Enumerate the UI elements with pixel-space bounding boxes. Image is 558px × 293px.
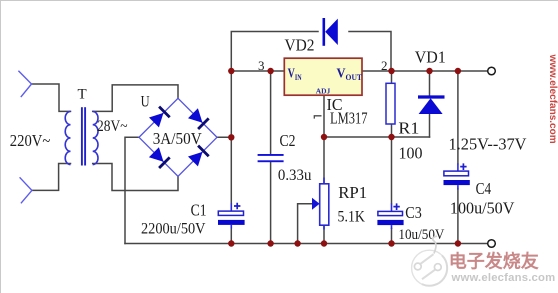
svg-text:220V~: 220V~ [10, 131, 51, 150]
frame top edge [0, 0, 558, 2]
transformer T secondary winding [93, 111, 98, 164]
AC input terminal top [18, 71, 31, 97]
svg-text:C4: C4 [476, 179, 492, 198]
transformer T primary winding [65, 111, 70, 164]
wire secondary bottom to bridge [93, 164, 178, 191]
wire C1 to bottom rail [230, 228, 232, 244]
diode VD2 [324, 18, 338, 46]
wire RP1 wiper [298, 204, 313, 244]
svg-text:C1: C1 [191, 200, 207, 219]
wire R1 top lead [391, 71, 393, 83]
frame left edge [0, 0, 2, 293]
bridge diode lower-right [188, 146, 209, 167]
wire secondary top to bridge [93, 85, 178, 112]
svg-text:www.elecfans.com: www.elecfans.com [451, 272, 556, 284]
svg-text:100u/50V: 100u/50V [450, 199, 515, 218]
wire C3 top lead [391, 137, 393, 204]
wire plus rail vertical upper [230, 71, 232, 137]
svg-text:2: 2 [381, 58, 388, 73]
svg-text:3: 3 [258, 58, 265, 73]
svg-text:LM317: LM317 [330, 109, 368, 128]
svg-text:www.elecfans.com: www.elecfans.com [547, 54, 558, 144]
svg-text:T: T [78, 87, 87, 103]
bridge diode upper-right [188, 108, 209, 129]
svg-text:5.1K: 5.1K [338, 209, 366, 226]
svg-text:28V~: 28V~ [97, 118, 128, 135]
output terminal minus [488, 240, 496, 248]
leader tick for LM317 [314, 116, 321, 119]
wire VD2 branch left [231, 32, 318, 72]
wire ADJ lead down to RP1 [323, 95, 325, 183]
wire C4 bottom lead [457, 189, 459, 244]
bridge diode lower-left [149, 147, 170, 168]
wire R1 bottom lead [391, 124, 393, 137]
capacitor C2 [258, 154, 284, 162]
potentiometer RP1 wiper arrowhead [312, 198, 320, 210]
capacitor C4 [444, 163, 470, 189]
wire C2 lower lead [270, 162, 272, 243]
AC input terminal bottom [20, 177, 32, 203]
svg-text:1.25V--37V: 1.25V--37V [449, 134, 528, 153]
svg-text:0.33u: 0.33u [278, 167, 312, 184]
svg-text:C3: C3 [405, 203, 422, 222]
wire C4 top lead [457, 71, 459, 164]
svg-text:RP1: RP1 [338, 183, 367, 202]
bridge rectifier U diamond [139, 98, 217, 176]
wire VD2 branch right [349, 32, 391, 72]
wire ADJ node to VD1 bottom [324, 136, 430, 138]
watermark logo [412, 236, 448, 286]
svg-text:100: 100 [399, 144, 423, 163]
resistor R1 [386, 83, 395, 124]
wire bottom input lead [32, 164, 71, 191]
wire bridge plus to rail [217, 136, 231, 138]
wire RP1 to bottom rail [323, 225, 325, 243]
bridge diode upper-left [149, 107, 170, 128]
potentiometer RP1 body [320, 178, 329, 230]
svg-text:2200u/50V: 2200u/50V [141, 221, 206, 238]
svg-text:10u/50V: 10u/50V [398, 227, 444, 243]
capacitor C1 [218, 203, 245, 229]
svg-text:C2: C2 [280, 131, 296, 150]
svg-text:VD1: VD1 [415, 48, 446, 67]
transformer T core [82, 107, 85, 165]
svg-text:3A/50V: 3A/50V [153, 129, 202, 148]
IC U1 LM317 body [284, 58, 362, 95]
svg-text:R1: R1 [398, 119, 419, 138]
svg-text:电子发烧友: 电子发烧友 [449, 251, 539, 272]
wire VOUT to node 2 and right rail [362, 70, 488, 72]
wire top input lead [32, 84, 71, 111]
diode VD1 [418, 97, 445, 114]
svg-text:VD2: VD2 [285, 35, 315, 54]
wire bottom rail [125, 243, 488, 245]
wire C3 bottom lead [391, 229, 393, 244]
output terminal plus [488, 67, 496, 75]
wire VD1 top lead [429, 71, 431, 95]
wire VD1 bottom lead [429, 114, 431, 137]
wire top rail to VIN [231, 70, 284, 72]
capacitor C3 [377, 203, 403, 229]
wire plus rail to C1 [230, 137, 232, 203]
wire bridge minus to bottom rail [125, 137, 139, 243]
wire C2 upper lead [270, 71, 272, 154]
svg-text:U: U [141, 93, 150, 110]
